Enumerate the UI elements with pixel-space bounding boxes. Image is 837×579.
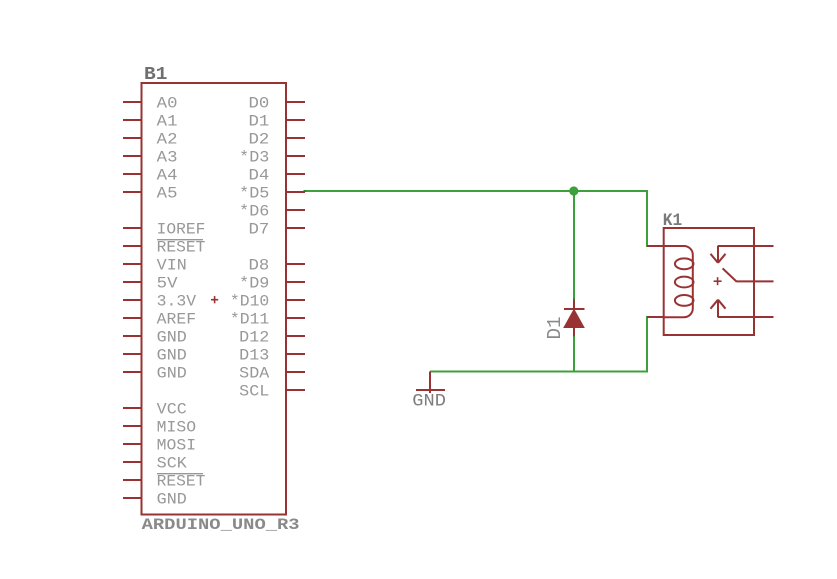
svg-text:SDA: SDA <box>239 365 270 383</box>
svg-text:*D11: *D11 <box>230 311 269 329</box>
svg-text:GND: GND <box>412 392 446 412</box>
svg-text:D7: D7 <box>249 221 270 239</box>
svg-text:ARDUINO_UNO_R3: ARDUINO_UNO_R3 <box>142 516 300 534</box>
svg-text:A5: A5 <box>157 185 178 203</box>
svg-text:A0: A0 <box>157 95 178 113</box>
svg-text:5V: 5V <box>157 275 179 293</box>
svg-text:MISO: MISO <box>157 419 196 437</box>
svg-text:AREF: AREF <box>157 311 196 329</box>
svg-text:*D9: *D9 <box>239 275 269 293</box>
svg-text:D1: D1 <box>544 317 566 340</box>
svg-text:A1: A1 <box>157 113 178 131</box>
svg-text:D4: D4 <box>249 167 270 185</box>
svg-text:B1: B1 <box>144 65 168 85</box>
svg-text:GND: GND <box>157 329 187 347</box>
svg-text:*D6: *D6 <box>239 203 269 221</box>
svg-text:A2: A2 <box>157 131 178 149</box>
svg-text:3.3V: 3.3V <box>157 293 197 311</box>
svg-text:GND: GND <box>157 491 187 509</box>
svg-text:VIN: VIN <box>157 257 187 275</box>
svg-text:*D10: *D10 <box>230 293 269 311</box>
svg-text:D13: D13 <box>239 347 269 365</box>
svg-text:VCC: VCC <box>157 401 187 419</box>
svg-text:GND: GND <box>157 347 187 365</box>
svg-text:A3: A3 <box>157 149 178 167</box>
svg-text:GND: GND <box>157 365 187 383</box>
svg-text:D0: D0 <box>249 95 270 113</box>
svg-text:*D3: *D3 <box>239 149 269 167</box>
svg-text:K1: K1 <box>663 211 682 231</box>
svg-text:D8: D8 <box>249 257 270 275</box>
svg-text:MOSI: MOSI <box>157 437 196 455</box>
svg-text:D2: D2 <box>249 131 270 149</box>
svg-text:*D5: *D5 <box>239 185 269 203</box>
svg-text:IOREF: IOREF <box>157 221 206 239</box>
svg-text:D1: D1 <box>249 113 270 131</box>
svg-text:SCK: SCK <box>157 455 188 473</box>
svg-text:A4: A4 <box>157 167 178 185</box>
svg-text:RESET: RESET <box>157 473 206 491</box>
svg-text:RESET: RESET <box>157 239 206 257</box>
svg-text:SCL: SCL <box>239 383 269 401</box>
svg-text:D12: D12 <box>239 329 269 347</box>
